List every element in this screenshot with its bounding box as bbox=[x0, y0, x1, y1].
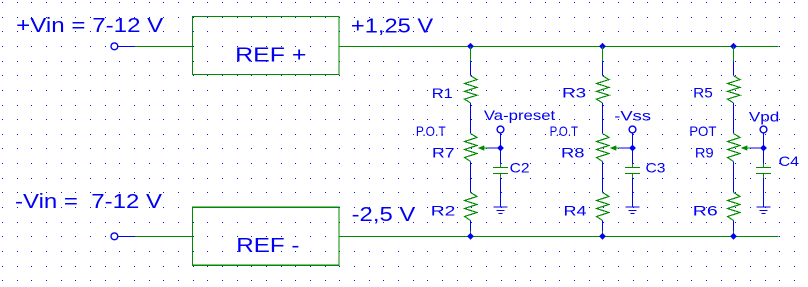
block U2 REF - bbox=[192, 207, 339, 265]
potentiometer R8 body bbox=[597, 134, 610, 162]
wiper pin wire of R8 bbox=[619, 147, 632, 149]
svg-text:R5: R5 bbox=[693, 85, 713, 101]
junction wiper of R7 bbox=[497, 145, 504, 152]
svg-text:P.O.T: P.O.T bbox=[416, 123, 446, 139]
capacitor C4 bbox=[756, 167, 771, 169]
wire stub below top junction bbox=[602, 47, 604, 62]
junction top rail / R5 bbox=[730, 43, 737, 50]
wire -Vin to REF- bbox=[135, 236, 193, 238]
wiper pin wire of R7 bbox=[487, 147, 500, 149]
svg-text:REF -: REF - bbox=[236, 234, 299, 257]
wire C2 to ground bbox=[500, 178, 502, 208]
wiper arrow of R8 bbox=[610, 145, 617, 150]
wire wiper to C3 bbox=[632, 148, 634, 164]
ground symbol bbox=[756, 206, 770, 208]
wire wiper to C4 bbox=[763, 148, 765, 164]
pin 2 of R5 / pin 1 of R9 bbox=[733, 103, 735, 134]
resistor R6 bbox=[728, 193, 741, 221]
wire C4 to ground bbox=[763, 178, 765, 208]
pin stub Vpd bbox=[763, 133, 765, 148]
block U1 REF + bbox=[192, 17, 339, 75]
pin 2 of R4 bbox=[602, 221, 604, 232]
svg-text:R9: R9 bbox=[695, 145, 714, 161]
pin 2 of R6 bbox=[733, 221, 735, 232]
wire stub above bottom junction bbox=[470, 231, 472, 237]
svg-text:C4: C4 bbox=[779, 153, 800, 169]
capacitor C2 bbox=[493, 167, 508, 169]
wire +Vin to REF+ bbox=[135, 46, 193, 48]
svg-text:REF +: REF + bbox=[235, 43, 306, 66]
svg-text:POT: POT bbox=[689, 123, 717, 139]
pin 2 of R2 bbox=[470, 221, 472, 232]
svg-text:R3: R3 bbox=[562, 85, 586, 101]
svg-text:-Vss: -Vss bbox=[614, 107, 651, 123]
junction wiper of R8 bbox=[629, 145, 636, 152]
wiper pin wire of R9 bbox=[750, 147, 763, 149]
pin 3 of R9 / pin 1 of R6 bbox=[733, 162, 735, 193]
svg-text:-Vin = 7-12 V: -Vin = 7-12 V bbox=[15, 190, 162, 213]
terminal pad +Vin bbox=[111, 43, 118, 50]
pin 3 of R8 / pin 1 of R4 bbox=[602, 162, 604, 193]
wiper arrow of R9 bbox=[741, 145, 748, 150]
svg-text:Vpd: Vpd bbox=[749, 108, 779, 124]
wire wiper to C2 bbox=[500, 148, 502, 164]
pin stub +Vin bbox=[118, 46, 135, 48]
pin 3 of R7 / pin 1 of R2 bbox=[470, 162, 472, 193]
wire C3 to ground bbox=[632, 178, 634, 208]
svg-text:+1,25 V: +1,25 V bbox=[351, 15, 434, 38]
pin 1 of R1 bbox=[470, 62, 472, 76]
wire stub above bottom junction bbox=[733, 231, 735, 237]
svg-text:P.O.T: P.O.T bbox=[550, 123, 579, 139]
svg-text:+Vin = 7-12 V: +Vin = 7-12 V bbox=[16, 14, 163, 37]
potentiometer R9 body bbox=[728, 134, 741, 162]
svg-text:R6: R6 bbox=[693, 203, 718, 219]
wiper arrow of R7 bbox=[478, 145, 485, 150]
ground symbol bbox=[493, 206, 507, 208]
resistor R3 bbox=[597, 76, 610, 103]
wire -2,5V bottom rail bbox=[339, 236, 778, 238]
wire +1,25V top rail bbox=[339, 46, 778, 48]
junction bottom rail / R4 bbox=[599, 233, 606, 240]
svg-text:Va-preset: Va-preset bbox=[484, 107, 555, 123]
svg-text:R2: R2 bbox=[431, 203, 456, 219]
pin stub Va-preset bbox=[500, 133, 502, 148]
resistor R4 bbox=[597, 193, 610, 221]
svg-text:R8: R8 bbox=[561, 145, 585, 161]
pin 1 of R3 bbox=[602, 62, 604, 76]
wire stub below top junction bbox=[733, 47, 735, 62]
junction bottom rail / R6 bbox=[730, 233, 737, 240]
wire stub above bottom junction bbox=[602, 231, 604, 237]
terminal pad Vpd bbox=[760, 126, 767, 133]
junction wiper of R9 bbox=[760, 145, 767, 152]
pin stub -Vin bbox=[118, 236, 135, 238]
terminal pad -Vin bbox=[111, 233, 118, 240]
terminal pad -Vss bbox=[629, 126, 636, 133]
capacitor C3 bbox=[625, 167, 640, 169]
potentiometer R7 body bbox=[465, 134, 478, 162]
junction top rail / R3 bbox=[599, 43, 606, 50]
resistor R2 bbox=[465, 193, 478, 221]
resistor R5 bbox=[728, 76, 741, 103]
junction top rail / R1 bbox=[467, 43, 474, 50]
pin 1 of R5 bbox=[733, 62, 735, 76]
junction bottom rail / R2 bbox=[467, 233, 474, 240]
pin 2 of R1 / pin 1 of R7 bbox=[470, 103, 472, 134]
svg-text:C2: C2 bbox=[510, 160, 530, 176]
pin 2 of R3 / pin 1 of R8 bbox=[602, 103, 604, 134]
svg-text:-2,5 V: -2,5 V bbox=[352, 203, 416, 226]
terminal pad Va-preset bbox=[497, 126, 504, 133]
svg-text:R1: R1 bbox=[432, 85, 453, 101]
ground symbol bbox=[625, 206, 639, 208]
pin stub -Vss bbox=[632, 133, 634, 148]
resistor R1 bbox=[465, 76, 478, 103]
svg-text:R7: R7 bbox=[432, 145, 455, 161]
wire stub below top junction bbox=[470, 47, 472, 62]
svg-text:C3: C3 bbox=[646, 160, 666, 176]
svg-text:R4: R4 bbox=[564, 203, 587, 219]
